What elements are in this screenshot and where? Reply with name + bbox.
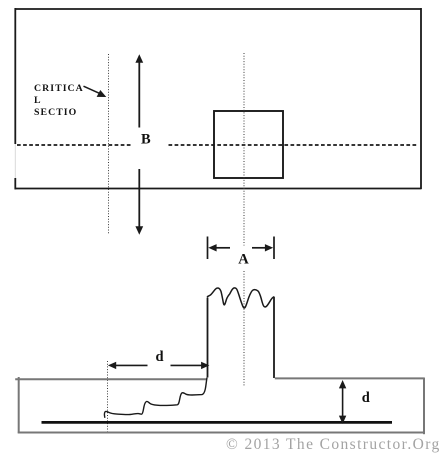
- svg-text:d: d: [155, 349, 163, 365]
- svg-text:B: B: [141, 132, 151, 148]
- svg-text:CRITICA: CRITICA: [34, 83, 84, 94]
- svg-text:© 2013 The Constructor.Org: © 2013 The Constructor.Org: [226, 436, 441, 453]
- svg-text:SECTIO: SECTIO: [34, 107, 77, 118]
- svg-text:d: d: [362, 390, 370, 406]
- svg-text:L: L: [34, 95, 42, 106]
- svg-text:A: A: [238, 252, 249, 268]
